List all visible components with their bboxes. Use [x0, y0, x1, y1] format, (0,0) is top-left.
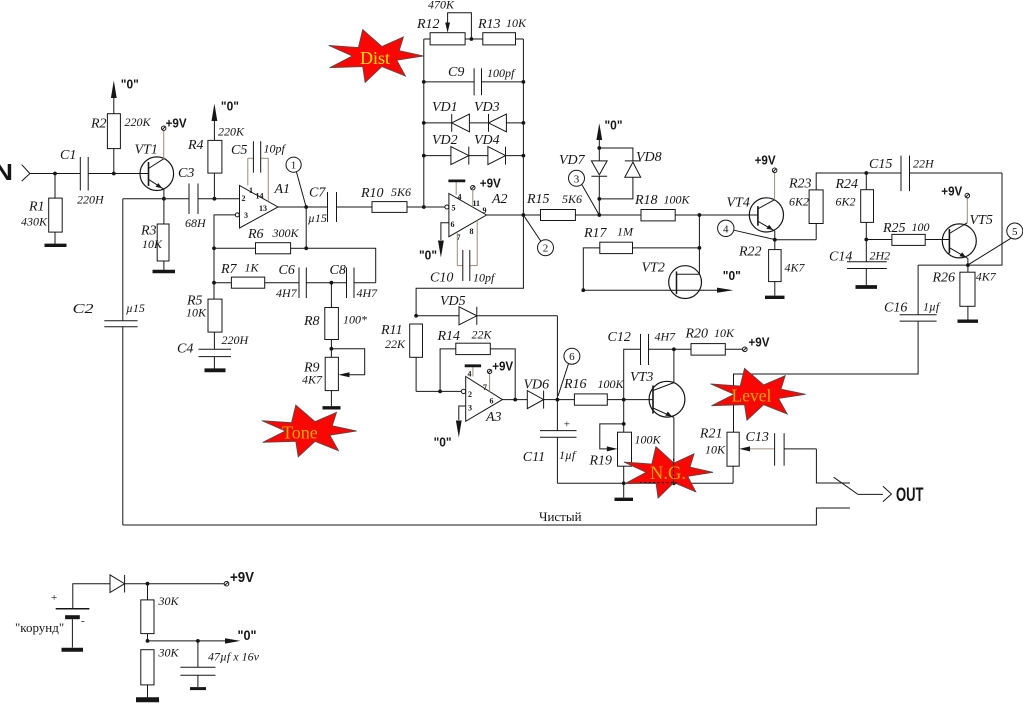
transistor VT4: [727, 196, 784, 240]
svg-text:5: 5: [452, 204, 456, 213]
svg-text:µ15: µ15: [308, 211, 327, 225]
svg-text:VD3: VD3: [474, 100, 500, 115]
node VT3 collector junction: [672, 347, 676, 351]
svg-text:10K: 10K: [142, 237, 163, 251]
svg-text:2: 2: [242, 194, 246, 203]
node 47uf junction: [196, 639, 200, 643]
capacitor C5: [231, 141, 287, 201]
wire ladder right backbone: [522, 39, 524, 215]
wire VT3 collector: [673, 349, 675, 382]
wire C13 to switch: [816, 449, 850, 483]
node main rail VD7 junction: [597, 213, 601, 217]
svg-text:6: 6: [569, 351, 575, 363]
resistor R4: [187, 121, 245, 199]
svg-text:14: 14: [256, 192, 264, 201]
svg-text:100*: 100*: [343, 313, 367, 327]
transistor VT5: [942, 213, 993, 265]
svg-text:2H2: 2H2: [870, 249, 891, 263]
resistor 30K upper: [141, 584, 180, 641]
terminal +9V supply: [224, 569, 254, 586]
svg-text:R13: R13: [477, 17, 501, 32]
ground below C4: [205, 368, 226, 372]
svg-text:C14: C14: [829, 250, 852, 265]
resistor R5: [186, 294, 222, 350]
svg-text:10K: 10K: [506, 16, 527, 30]
ground below R9: [323, 406, 341, 409]
op-amp A2: [445, 192, 508, 242]
wire divider mid rail: [148, 640, 227, 642]
wire emitter row: [123, 198, 189, 200]
capacitor C14: [829, 240, 890, 286]
node divider mid junction: [146, 639, 150, 643]
svg-text:R7: R7: [220, 262, 238, 277]
svg-text:C8: C8: [330, 263, 346, 278]
node circle 6: [558, 348, 580, 396]
svg-text:1: 1: [249, 186, 253, 195]
wire C16 to R21 top: [734, 321, 919, 432]
resistor R13: [477, 16, 527, 45]
capacitor C6: [276, 263, 306, 300]
power bar pin4 A3: [465, 366, 481, 377]
svg-text:Dist: Dist: [360, 48, 390, 68]
trimmer R9: [302, 349, 365, 406]
resistor R25: [866, 220, 949, 245]
ground arrow "0" above R2: [111, 77, 139, 99]
resistor 30K lower: [141, 646, 180, 698]
wire A1 output: [278, 206, 328, 208]
node circle 4: [718, 220, 774, 239]
wire C2 to clean bypass: [122, 327, 124, 525]
svg-text:4H7: 4H7: [357, 286, 379, 300]
svg-text:"0": "0": [434, 435, 452, 450]
battery корунд: [15, 592, 89, 635]
svg-text:11: 11: [473, 199, 481, 208]
svg-text:VT3: VT3: [630, 370, 653, 385]
node R6 feedback junction: [304, 246, 308, 250]
node R4 junction: [213, 197, 217, 201]
svg-text:4K7: 4K7: [976, 270, 997, 284]
svg-text:"0": "0": [723, 268, 741, 283]
svg-text:3: 3: [574, 173, 580, 185]
diode VD4: [469, 133, 526, 165]
terminal +9V A2: [471, 176, 501, 208]
svg-text:VD6: VD6: [524, 378, 550, 393]
node VT4 base junction: [698, 213, 702, 217]
svg-text:1K: 1K: [245, 261, 260, 275]
wire feedback drop: [305, 207, 307, 248]
wire clean bypass: [123, 508, 850, 525]
wire VT1 collector to +9V: [162, 116, 187, 159]
node A2 output junction: [522, 213, 526, 217]
diode VD8: [599, 148, 661, 199]
svg-text:30K: 30K: [158, 646, 180, 660]
wire tone bottom rail: [557, 482, 733, 484]
svg-text:C7: C7: [309, 186, 326, 201]
svg-text:R2: R2: [90, 117, 107, 132]
node R17 right junction: [698, 246, 702, 250]
svg-text:"0": "0": [121, 77, 139, 92]
svg-text:10pf: 10pf: [473, 271, 496, 285]
ground arrow "0" A3 pin3: [434, 406, 466, 450]
svg-text:VD1: VD1: [432, 100, 458, 115]
svg-text:22H: 22H: [913, 157, 935, 171]
svg-text:8: 8: [470, 227, 474, 236]
capacitor C13: [739, 430, 816, 466]
svg-text:6: 6: [490, 397, 494, 406]
node VD7 top junction: [597, 146, 601, 150]
potentiometer R12: [416, 0, 483, 45]
svg-text:5K6: 5K6: [391, 185, 411, 199]
svg-text:R24: R24: [835, 177, 859, 192]
node VT1 emitter: [162, 197, 166, 201]
ground below R3: [153, 270, 176, 273]
resistor R16: [557, 377, 653, 405]
resistor R10: [360, 185, 445, 212]
svg-text:IN: IN: [0, 159, 13, 185]
svg-text:Чистый: Чистый: [539, 509, 582, 524]
node VD6 output junction: [556, 398, 560, 402]
dotted marker NG: [640, 459, 677, 484]
diode supply: [110, 575, 224, 593]
svg-text:R17: R17: [583, 226, 608, 241]
svg-text:R15: R15: [526, 192, 550, 207]
diode VD3: [469, 100, 525, 132]
svg-text:+9V: +9V: [166, 116, 187, 131]
svg-text:VT4: VT4: [727, 196, 750, 211]
potentiometer R21: [699, 427, 739, 484]
svg-text:220K: 220K: [218, 125, 245, 139]
star Level: [711, 368, 806, 420]
svg-text:"0": "0": [605, 118, 623, 133]
capacitor C2: [73, 199, 145, 327]
svg-text:C16: C16: [884, 301, 907, 316]
wire VT3 emitter drop: [673, 417, 675, 483]
ground arrow "0" above VD7: [596, 118, 622, 149]
resistor R8: [303, 283, 367, 358]
node bottom rail VT3: [672, 481, 676, 485]
node VT5 emitter junction: [966, 263, 970, 267]
resistor R1: [21, 174, 62, 244]
node bottom rail R19: [622, 481, 626, 485]
svg-text:C13: C13: [746, 430, 769, 445]
node R12-R13 junction: [470, 37, 474, 41]
svg-text:100: 100: [912, 220, 930, 234]
ground below battery: [62, 648, 84, 652]
wire ladder left backbone: [423, 39, 425, 207]
node R7 column junction: [212, 246, 216, 250]
node circle 1: [286, 157, 306, 206]
svg-text:VT1: VT1: [135, 143, 158, 158]
svg-text:4H7: 4H7: [276, 286, 298, 300]
svg-text:R6: R6: [247, 227, 264, 242]
node A1 output junction: [304, 205, 308, 209]
svg-text:VD5: VD5: [440, 294, 466, 309]
wire A2 output: [487, 214, 541, 216]
svg-text:4K7: 4K7: [785, 261, 806, 275]
wire A3 output: [502, 399, 527, 401]
svg-text:+9V: +9V: [492, 359, 513, 374]
wire C1 to VT1 base: [88, 173, 148, 175]
svg-text:300K: 300K: [272, 226, 300, 240]
svg-text:C3: C3: [178, 166, 194, 181]
capacitor C4: [177, 333, 250, 369]
transistor VT3: [630, 370, 685, 417]
capacitor C16: [884, 265, 968, 321]
svg-text:6: 6: [451, 220, 455, 229]
svg-text:R12: R12: [416, 17, 440, 32]
svg-text:C9: C9: [448, 65, 464, 80]
svg-text:100K: 100K: [664, 193, 691, 207]
op-amp A3: [461, 370, 502, 426]
wire C6 to C8: [306, 282, 346, 284]
svg-text:3: 3: [468, 404, 472, 413]
star Tone: [262, 405, 357, 457]
ground arrow "0" A2 pin6: [419, 223, 449, 262]
svg-text:R8: R8: [303, 314, 320, 329]
input terminal IN: [0, 159, 30, 185]
node R9 top junction: [330, 347, 334, 351]
node VT2 gate junction: [581, 288, 585, 292]
diode VD2: [422, 133, 469, 165]
svg-text:VD4: VD4: [474, 133, 500, 148]
diode VD6: [524, 378, 558, 409]
capacitor C8: [330, 263, 379, 300]
svg-text:4: 4: [468, 370, 472, 379]
resistor R23: [775, 173, 867, 240]
svg-text:2: 2: [468, 390, 472, 399]
node VT4 emitter junction: [773, 238, 777, 242]
svg-text:"0": "0": [419, 247, 437, 262]
svg-text:10K: 10K: [186, 306, 207, 320]
node input junction R1: [53, 172, 57, 176]
svg-text:4H7: 4H7: [655, 330, 677, 344]
ground below 47uf: [190, 687, 206, 690]
ground below R22: [765, 296, 785, 299]
resistor R3: [140, 199, 169, 270]
wire R17 drop: [698, 215, 700, 274]
svg-text:+9V: +9V: [941, 183, 962, 198]
svg-text:R22: R22: [738, 245, 762, 260]
svg-text:C11: C11: [523, 450, 545, 465]
wire C15 feedback to VT5 emitter: [968, 173, 1002, 265]
svg-text:3: 3: [244, 211, 248, 220]
capacitor C3: [178, 166, 207, 230]
node circle 3: [569, 170, 599, 214]
node A3 output junction: [513, 398, 517, 402]
ground arrow "0" VT2 source: [717, 268, 741, 293]
node R16 right junction: [622, 398, 626, 402]
wire C3 to A1 pin2: [198, 198, 240, 200]
svg-text:C15: C15: [869, 157, 892, 172]
svg-text:C4: C4: [177, 342, 193, 357]
svg-text:C10: C10: [430, 271, 453, 286]
resistor R2: [90, 98, 152, 174]
svg-text:10pf: 10pf: [264, 142, 287, 156]
svg-text:R11: R11: [380, 323, 403, 338]
svg-text:2: 2: [543, 243, 549, 255]
node VD5 R11 junction: [414, 314, 418, 318]
node ladder left bottom: [422, 205, 426, 209]
svg-text:R23: R23: [788, 177, 812, 192]
capacitor C1: [60, 148, 105, 207]
svg-text:30K: 30K: [158, 594, 180, 608]
svg-text:R4: R4: [187, 138, 204, 153]
ground below R26: [958, 320, 979, 323]
resistor R17: [583, 225, 699, 291]
svg-text:100K: 100K: [598, 377, 625, 391]
wire switch to OUT arrow: [858, 493, 883, 495]
resistor R22: [738, 240, 806, 296]
svg-text:1µf: 1µf: [923, 300, 941, 314]
svg-text:A1: A1: [274, 182, 291, 197]
svg-text:R18: R18: [634, 193, 658, 208]
capacitor C15: [866, 156, 1002, 192]
node R7 left junction: [212, 281, 216, 285]
wire battery minus: [71, 619, 73, 647]
svg-text:µ15: µ15: [126, 301, 145, 315]
capacitor C9: [422, 65, 525, 95]
node supply divider top: [146, 582, 150, 586]
svg-text:"0": "0": [238, 627, 257, 643]
ground below divider: [136, 697, 159, 702]
capacitor 47uf: [180, 641, 259, 687]
wire VD5 to VD6 node: [556, 316, 558, 400]
op-amp A1: [235, 182, 290, 228]
resistor R15: [526, 192, 641, 221]
svg-text:+: +: [564, 419, 570, 431]
svg-text:+: +: [51, 592, 57, 604]
trimmer R19: [589, 400, 662, 484]
svg-text:100K: 100K: [635, 433, 662, 447]
resistor R7: [214, 261, 299, 289]
svg-text:+9V: +9V: [480, 176, 501, 191]
star Dist: [329, 30, 424, 83]
diode VD5: [416, 294, 557, 325]
svg-text:A3: A3: [485, 410, 502, 425]
svg-text:+9V: +9V: [749, 335, 770, 350]
svg-text:7: 7: [483, 383, 487, 392]
svg-text:6K2: 6K2: [836, 195, 856, 209]
svg-text:220K: 220K: [125, 115, 152, 129]
resistor R26: [932, 265, 997, 319]
svg-text:+9V: +9V: [230, 569, 254, 586]
svg-text:C1: C1: [60, 148, 76, 163]
svg-text:R14: R14: [437, 329, 461, 344]
svg-text:+9V: +9V: [755, 152, 776, 167]
svg-text:1µf: 1µf: [559, 448, 577, 462]
svg-text:220H: 220H: [77, 193, 105, 207]
svg-text:430K: 430K: [21, 215, 48, 229]
ground arrow "0" divider: [225, 627, 257, 644]
svg-text:Tone: Tone: [282, 423, 318, 443]
svg-text:220H: 220H: [222, 333, 250, 347]
node R19 top junction: [622, 422, 626, 426]
svg-text:100pf: 100pf: [487, 66, 516, 80]
svg-text:C2: C2: [73, 302, 94, 317]
svg-text:22K: 22K: [472, 328, 493, 342]
svg-text:VD7: VD7: [559, 153, 586, 168]
svg-text:5K6: 5K6: [562, 192, 582, 206]
wire input rail: [30, 173, 80, 175]
svg-text:1M: 1M: [617, 225, 634, 239]
svg-text:1: 1: [291, 160, 297, 172]
svg-text:VT5: VT5: [970, 213, 993, 228]
transistor VT1: [135, 143, 174, 199]
svg-text:"корунд": "корунд": [15, 620, 64, 635]
output terminal OUT: [883, 485, 924, 506]
node VD7 bottom junction: [597, 197, 601, 201]
svg-text:13: 13: [259, 204, 267, 213]
wire A2 out to tone input: [416, 215, 523, 316]
svg-text:68H: 68H: [185, 216, 207, 230]
star NG: [624, 447, 713, 499]
svg-text:R26: R26: [932, 271, 956, 286]
wire pin3 feedback column: [214, 215, 235, 299]
transistor VT2: [583, 261, 718, 299]
svg-text:6K2: 6K2: [789, 195, 809, 209]
terminal +9V A3: [487, 359, 513, 392]
ground arrow "0" above R4: [212, 99, 239, 122]
node R2 junction: [112, 172, 116, 176]
svg-text:Level: Level: [732, 386, 772, 406]
ground below C14: [856, 285, 878, 289]
wire battery plus: [73, 584, 110, 609]
svg-text:VD2: VD2: [432, 133, 458, 148]
resistor R20: [685, 326, 748, 355]
svg-text:A2: A2: [491, 192, 508, 207]
node A3 pin2 junction: [438, 390, 442, 394]
svg-text:"0": "0": [221, 99, 239, 114]
svg-text:-: -: [81, 615, 85, 627]
resistor R6: [214, 226, 306, 254]
svg-text:4: 4: [723, 223, 729, 235]
svg-text:VT2: VT2: [642, 261, 665, 276]
capacitor C10: [430, 221, 496, 286]
resistor R18: [634, 193, 758, 221]
svg-text:R1: R1: [28, 200, 45, 215]
capacitor C11: [523, 400, 577, 484]
svg-text:10K: 10K: [705, 443, 726, 457]
diode VD7: [559, 148, 607, 215]
svg-text:R20: R20: [685, 327, 709, 342]
wire R6 to C8 drop: [306, 248, 376, 282]
resistor R11: [380, 323, 461, 391]
svg-text:R19: R19: [589, 454, 613, 469]
svg-text:N.G.: N.G.: [650, 464, 686, 484]
svg-text:C12: C12: [608, 330, 631, 345]
capacitor C12: [608, 330, 692, 400]
svg-text:C5: C5: [231, 143, 247, 158]
node circle 2: [525, 217, 554, 256]
ground below R1: [45, 244, 67, 247]
terminal +9V VT4: [755, 152, 777, 200]
svg-text:R16: R16: [563, 377, 587, 392]
svg-text:R21: R21: [699, 427, 723, 442]
power bar pin4 A2: [448, 181, 465, 195]
svg-text:R10: R10: [360, 186, 384, 201]
node R8 junction: [330, 281, 334, 285]
svg-text:VD8: VD8: [636, 150, 662, 165]
svg-text:10K: 10K: [714, 326, 735, 340]
svg-text:5: 5: [1012, 226, 1018, 238]
svg-text:OUT: OUT: [896, 485, 924, 506]
node circle 5: [969, 223, 1023, 265]
node C15 junction: [864, 171, 868, 175]
node R24 bottom junction: [864, 238, 868, 242]
svg-text:R25: R25: [882, 221, 906, 236]
svg-text:22K: 22K: [385, 337, 406, 351]
capacitor C7: [308, 186, 372, 226]
